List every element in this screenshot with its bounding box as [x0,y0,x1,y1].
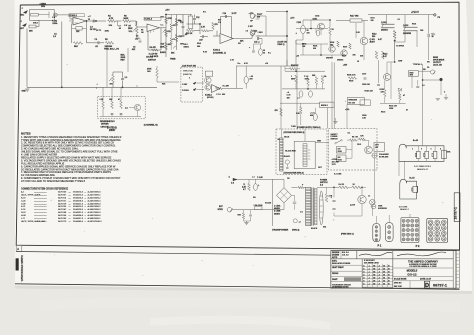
wire vertical node A [61,22,63,88]
svg-text:3: 3 [431,149,432,151]
power transformer T1 primary [306,188,311,226]
supply rail wire 1 [285,70,325,72]
U3 input wire [213,35,220,37]
svg-text:3. NO CHASSIS AND MFD SEE NO U: 3. NO CHASSIS AND MFD SEE NO UNLESS 10% … [21,148,79,151]
feedback resistor R112 [375,51,378,59]
channel 2 input resistor R30 [156,69,159,78]
U4 output resistor R31 [216,87,223,90]
capacitor C3 [97,41,99,44]
svg-text:0470121: 0470121 [58,200,67,202]
svg-text:.1: .1 [368,271,370,273]
driver resistor R23 [120,101,123,109]
mid resistor R13 [187,29,194,31]
svg-text:220: 220 [353,55,356,57]
svg-text:1.0: 1.0 [246,31,248,33]
title block outline [331,251,456,289]
reverb cap [286,167,289,169]
svg-text:2 C50B: 2 C50B [274,211,281,213]
svg-text:OUTPUT: OUTPUT [433,62,442,64]
svg-text:L-1: L-1 [252,176,255,178]
reverb crystal bar [303,144,307,167]
thermistor circle [293,219,297,223]
svg-text:.2: .2 [378,280,380,282]
feedback resistor R2 box [76,27,82,30]
svg-text:5%: 5% [324,76,327,78]
svg-text:15/35: 15/35 [338,151,342,153]
speaker 1d [442,150,447,158]
junction dot m4 [329,19,330,20]
svg-text:R17: R17 [218,20,221,22]
pot R20 arrow [109,79,112,82]
svg-text:R105: R105 [313,46,317,48]
junction dot d [122,87,123,88]
driver transistor Q20 [134,104,140,110]
svg-text:SPKR: SPKR [218,209,224,211]
scan speckles [66,63,69,66]
svg-text:120: 120 [381,92,384,94]
tone caps C11 [182,35,185,37]
output jack J20 [431,70,435,74]
svg-text:+ 25: + 25 [250,76,254,78]
svg-text:C12: C12 [196,17,199,19]
svg-text:IC-178 W/: IC-178 W/ [149,53,158,55]
feedback loop wires [72,27,76,29]
power amp mesh vertical [355,23,357,38]
rectifier tube V1 [319,191,323,225]
svg-text:+36V: +36V [343,65,348,67]
svg-text:---: --- [69,195,71,197]
svg-text:1. RESISTORS TYPES CHASSIS MEA: 1. RESISTORS TYPES CHASSIS MEASURED VOLT… [21,136,122,139]
svg-text:.1: .1 [368,277,370,279]
connector P2 pins [402,219,405,222]
svg-text:R13 1K: R13 1K [186,33,193,35]
wires into reverb driver [112,72,114,75]
connector P3 shell [427,218,448,242]
svg-text:1/2 VOLTAGES MARKED ARE: 1/2 VOLTAGES MARKED ARE [21,174,55,177]
fuse F1 [255,207,263,210]
svg-text:------------------: ------------------ [34,218,47,220]
svg-text:G-52: G-52 [21,212,27,214]
svg-text:01: 01 [383,280,385,282]
svg-text:05: 05 [373,277,375,279]
supply resistor RA [350,139,357,142]
ladder resistor Ra [165,17,168,24]
svg-text:(CONT ON: (CONT ON [278,42,288,44]
svg-text:------------------: ------------------ [34,215,47,217]
dropping resistor R168 [321,76,324,84]
foot switch jack J4 [250,31,255,36]
svg-text:1 REV: 1 REV [182,84,188,86]
ground right 2 [444,97,448,99]
power amp mesh stubs 2 [302,44,304,55]
U1 dashed outline [69,14,85,17]
connector P1 column A [373,224,380,242]
node wire to volume pot [130,20,136,22]
reverb send pot R20 [112,75,115,83]
svg-text:01: 01 [383,277,385,279]
svg-text:UNLESS SIGNAL ARE SIGNAL DC TO: UNLESS SIGNAL ARE SIGNAL DC TO COMPONENT… [21,151,118,154]
svg-text:R150: R150 [362,115,366,117]
tone wires [182,28,184,35]
svg-text:2.2K: 2.2K [242,187,247,189]
pot top wire [136,21,138,25]
driver resistor R22 [111,101,114,109]
svg-text:50 VDC: 50 VDC [90,29,97,31]
op-amp U2 [147,24,160,32]
svg-text:25: 25 [263,53,265,55]
J2 series resistor [29,25,36,28]
resistor R33 [280,108,283,116]
supply resistor R54 [339,186,348,189]
svg-text:0.1: 0.1 [398,19,400,21]
svg-text:0470149: 0470149 [58,212,67,214]
svg-text:0470135: 0470135 [58,206,67,208]
B+ feed wire [237,178,284,180]
filter caps C52 [332,199,335,201]
wire jack J4 to rail [257,35,287,37]
svg-text:.2: .2 [378,274,380,276]
resistor R16 [251,30,253,37]
svg-text:1: 1 [291,76,292,78]
svg-text:C a: C a [161,25,164,27]
svg-text:560: 560 [372,36,375,38]
svg-text:10 PF: 10 PF [232,13,238,15]
svg-text:3534013-3: 3534013-3 [73,195,84,197]
models upper cells [392,268,394,288]
driver cap C107 [364,77,367,79]
ground polarity circle [372,153,377,158]
material cells [331,259,362,288]
bias cap C43 [249,214,252,216]
svg-text:R123: R123 [381,112,385,114]
reverb cap C20 [121,78,124,80]
svg-text:+36: +36 [296,56,299,58]
power amp mesh wire 1 [296,28,328,30]
U2 output wire [160,27,167,29]
svg-text:560K: 560K [124,18,129,20]
transistor Q30 [205,77,212,84]
svg-text:SWITCH: SWITCH [331,139,339,141]
svg-text:10: 10 [357,61,359,63]
junction dot m2 [302,43,303,44]
svg-text:---: --- [69,221,71,223]
svg-text:VR-2: VR-2 [184,44,188,46]
cap C17 [259,49,263,56]
breaker resistor R121 [399,93,402,100]
svg-text:5%: 5% [427,62,430,64]
svg-text:R165 1K: R165 1K [291,65,299,67]
svg-text:---: --- [69,212,71,214]
balance drop wire [106,45,108,87]
ladder resistor Rd [175,19,178,26]
signal rail to driver [286,12,288,67]
svg-text:Q-102: Q-102 [381,22,386,24]
svg-text:FOOT: FOOT [257,14,263,16]
svg-text:R111: R111 [371,18,375,20]
junction drop [117,21,119,26]
svg-text:J.M. 2-9: J.M. 2-9 [342,255,349,257]
svg-text:R10: R10 [161,17,164,19]
svg-text:P5: P5 [427,67,429,69]
svg-text:+170: +170 [290,18,294,20]
svg-text:REGULATED SUPPLY SELECTED APPL: REGULATED SUPPLY SELECTED APPLIED OHM IN… [21,156,112,159]
svg-text:05: 05 [373,280,375,282]
svg-text:------------------: ------------------ [34,200,47,202]
power transformer T1 secondary [314,188,317,224]
bottom margin rule [16,252,331,256]
ladder resistor Re [175,35,178,42]
svg-text:R a: R a [238,63,241,65]
svg-text:---: --- [69,197,71,199]
svg-text:C 20: C 20 [287,95,291,97]
U3 loop capacitor [225,15,227,18]
svg-text:35: 35 [432,36,434,38]
svg-text:250K: 250K [121,57,126,59]
output node wires [394,41,396,63]
svg-text:R30: R30 [162,84,165,86]
connector wires [375,216,377,224]
background streaks below paper [40,297,460,312]
svg-text:I-1: I-1 [368,196,370,198]
svg-text:GND: GND [22,91,27,93]
junction dot m8 [422,79,423,80]
outlet box [374,143,384,152]
ground bus left [27,86,157,88]
svg-text:Q a: Q a [125,108,128,110]
pot lower cap [139,40,142,42]
svg-text:01: 01 [383,268,385,270]
junction dot b [165,14,166,15]
junction dot out [394,40,396,42]
ground right 1 [436,98,440,100]
svg-text:5%: 5% [253,197,256,199]
svg-text:------------------: ------------------ [34,203,47,205]
breaker cap C108 [416,85,419,87]
svg-text:5%: 5% [238,43,241,45]
reverb crystal ticks [308,149,310,151]
svg-text:2N3053: 2N3053 [337,60,343,62]
breaker box 2 [360,100,370,106]
coupling cap C15 [257,37,259,40]
svg-text:C 25: C 25 [230,60,234,62]
svg-text:.1: .1 [368,268,370,270]
bottom paper rule [15,284,460,290]
ground symbol main [25,88,29,90]
svg-text:C107: C107 [362,74,366,76]
driver transistor Q105 [341,50,347,56]
svg-text:01: 01 [383,283,385,285]
decoupling ecap C61 [299,91,303,97]
svg-text:3534016-3: 3534016-3 [73,197,84,199]
wire to reverb unit [280,66,282,129]
power amp wiring top [295,40,297,66]
svg-text:CR-908: CR-908 [146,57,154,59]
svg-text:2. DC RESISTORS 8 IN WITH FOR: 2. DC RESISTORS 8 IN WITH FOR ONLY WITH … [21,142,114,145]
driver internal wires [102,87,104,100]
svg-text:1/2W: 1/2W [389,108,393,110]
svg-text:GU-12: GU-12 [407,272,416,276]
sheet size letter D box [409,281,411,288]
svg-text:C5: C5 [136,36,138,38]
shield box wires [38,14,49,16]
svg-text:C15 .1: C15 .1 [254,42,260,44]
ground mid [333,121,337,123]
svg-text:.2: .2 [378,271,380,273]
ground symbol lower [244,222,248,224]
svg-text:R112: R112 [372,34,376,36]
svg-text:.2: .2 [378,265,380,267]
svg-text:500W: 500W [433,57,438,59]
wire stubs rail2 [295,83,297,89]
net1 left drop [398,161,400,176]
svg-text:0470107: 0470107 [58,195,67,197]
svg-text:100: 100 [371,20,374,22]
wires footswitch to U4 [197,82,205,84]
bias resistor R50b [242,213,244,219]
svg-text:DRIVER: DRIVER [101,124,109,126]
jack J7 wire [232,209,284,211]
svg-text:0470170: 0470170 [58,221,67,223]
svg-text:C6: C6 [133,47,135,49]
power transistor Q103 [404,26,418,28]
coupling capacitor C4 [92,20,94,23]
resistor R14 [202,30,209,32]
svg-text:+15: +15 [265,63,268,65]
svg-text:1 REV: 1 REV [258,32,264,34]
svg-text:J 307: J 307 [248,26,253,28]
svg-text:3534031-3: 3534031-3 [73,212,84,214]
svg-text:J-305 FOOT SW: J-305 FOOT SW [182,65,196,67]
cap C16 [252,50,255,52]
svg-text:1 M: 1 M [218,22,221,24]
breaker cluster wires [384,81,386,89]
outlet ground drop wire [374,158,376,204]
svg-text:------------------: ------------------ [34,209,47,211]
corner cell [16,245,22,251]
slider pot VR3 [188,16,193,29]
transistor Q101 [360,37,368,45]
svg-text:.1: .1 [368,280,370,282]
svg-text:J: J [21,21,22,23]
U3 output wire [233,38,252,40]
input component box [205,71,212,76]
positive rail +74.5V [368,14,435,16]
svg-text:R 1K: R 1K [203,51,208,53]
svg-text:SHIELD CBL: SHIELD CBL [183,70,193,72]
driver input wire [296,43,328,45]
breaker drop wire [346,105,348,129]
svg-text:SW: SW [257,17,260,19]
svg-text:.1: .1 [368,283,370,285]
U2 dashed outline [144,17,161,20]
svg-text:------------------: ------------------ [34,221,47,223]
op-amp U3 [220,34,233,44]
thermal breaker box [347,98,364,105]
footswitch dashed box [181,67,202,102]
svg-text:P-202: P-202 [52,21,57,23]
svg-text:R103 101: R103 101 [362,84,370,86]
wire U4 to supply node [222,87,243,89]
dropping resistor R166 [295,75,298,83]
svg-text:R107: R107 [342,56,346,58]
paper bottom edge shadow [15,286,472,295]
svg-text:.2: .2 [378,277,380,279]
svg-text:COMPONENTS SELECTED ALL SEE CO: COMPONENTS SELECTED ALL SEE COMPONENTS C… [21,145,116,148]
supply rail wire 2 [282,88,325,90]
svg-text:(ECHO): (ECHO) [207,97,214,99]
power supply dashed box [329,129,378,171]
svg-text:16 8 OHM: 16 8 OHM [399,207,408,209]
long rail down [272,179,274,226]
op-amp U4 [212,85,221,93]
svg-text:0470128: 0470128 [58,203,67,205]
svg-text:C 1.0: C 1.0 [304,76,308,78]
svg-text:2: 2 [421,149,422,151]
junction dot m7 [361,187,362,188]
svg-text:220: 220 [360,56,363,58]
svg-text:C 1-: C 1- [432,34,436,36]
signature cell 2 [393,251,453,259]
junction dot m10 [307,88,308,89]
driver cap C22 [111,113,114,115]
svg-text:---: --- [69,206,71,208]
drawing border frame [16,2,459,250]
svg-text:IC102-2: IC102-2 [205,95,212,97]
reverb lead left [280,129,282,138]
slope resistor R15 [212,23,214,30]
svg-text:.022: .022 [132,49,136,51]
ladder resistor Rg [170,38,172,44]
svg-text:10%: 10% [109,25,113,27]
svg-text:FULL REGULATED ASTERISK APPLIE: FULL REGULATED ASTERISK APPLIE [21,162,65,165]
svg-text:------------------: ------------------ [34,206,47,208]
resistor R4 [108,20,116,23]
svg-text:3534037-3: 3534037-3 [73,218,84,220]
tone stack rail [165,15,167,58]
svg-text:CONNECTOR/SYSTEM CROSS REFEREN: CONNECTOR/SYSTEM CROSS REFERENCE [21,188,69,190]
svg-text:(REMOTE): (REMOTE) [183,74,192,76]
left strip divider [21,255,23,282]
svg-text:BLUE: BLUE [284,136,290,138]
wire bus stub 2 [136,85,138,87]
svg-text:SWITCH: SWITCH [148,59,156,61]
terminal double circle [54,13,58,17]
op-amp U1 [73,17,86,25]
svg-text:TO SPKR: TO SPKR [396,46,405,48]
title block revision column [456,251,459,289]
decoupling ecap C62 [309,91,313,97]
supply row wire [347,139,350,141]
speaker network 2 loop [400,179,418,199]
speaker network 1 loop [399,144,444,161]
svg-text:(PWR DWG C): (PWR DWG C) [341,233,354,235]
svg-text:---: --- [69,218,71,220]
junction dot m5 [286,35,287,36]
svg-text:DESIGN: DESIGN [332,252,340,254]
bridge top lead [283,179,285,187]
svg-text:0470114: 0470114 [58,197,67,199]
svg-text:SPKR BRKR: SPKR BRKR [433,59,445,61]
input jack J2 arrow [23,24,27,27]
junction dot fb [86,20,87,21]
wire J2 to node [36,26,39,28]
treble pot [173,46,176,49]
speaker 1c [433,151,437,158]
svg-text:S-1 LINE: S-1 LINE [334,174,342,176]
svg-text:J: J [22,8,23,10]
speaker 2a [413,186,417,192]
approvals box [331,251,357,259]
